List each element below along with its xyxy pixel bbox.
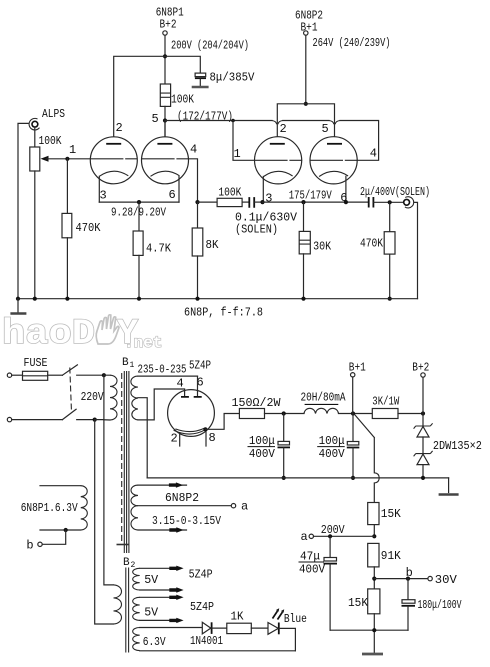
tag arrow 5V1 bottom (169, 587, 183, 592)
junction dot B+2 node (421, 411, 425, 415)
svg-text:5: 5 (322, 122, 329, 136)
wire PSU ground rail (147, 477, 448, 479)
wire to cap 8u branch (165, 56, 200, 73)
tag arrow 3.15V bottom (169, 527, 183, 532)
triode V2 (6N8P1 b) (142, 121, 198, 203)
svg-text:5Z4P: 5Z4P (190, 600, 214, 614)
svg-text:2: 2 (171, 432, 178, 446)
transformer B1 HV secondary 235-0-235 (131, 376, 198, 478)
zener diode 2DW135 lower (414, 439, 482, 478)
svg-text:100K: 100K (39, 134, 63, 148)
svg-text:8μ/385V: 8μ/385V (210, 71, 256, 85)
resistor 470K output (360, 202, 395, 301)
switch link dashed (70, 368, 72, 413)
svg-text:3: 3 (265, 191, 272, 205)
wire B2 feed left (104, 375, 114, 585)
node B+2 terminal (6N8P1 supply) (156, 6, 184, 36)
svg-text:200V: 200V (321, 523, 346, 537)
connector AC input top (7, 373, 22, 377)
ground symbol top section (10, 299, 26, 314)
ground symbol divider (362, 653, 383, 656)
svg-text:3K/1W: 3K/1W (372, 395, 400, 409)
node B+1 terminal (6N8P2 supply) (295, 9, 323, 36)
svg-text:B+1: B+1 (301, 21, 318, 35)
svg-text:haoD: haoD (2, 314, 95, 354)
svg-text:5V: 5V (144, 573, 159, 587)
triode V1 (6N8P1 a) (90, 121, 137, 203)
SECTION BOTTOM : power supply (7, 356, 482, 654)
switch power DPST pole 1 (62, 365, 104, 375)
junction dot grid V1 node (65, 157, 69, 161)
inductor choke 20H/80mA (301, 391, 373, 414)
svg-text:Blue: Blue (284, 612, 307, 626)
connector AC input bottom (7, 417, 62, 421)
svg-text:(SOLEN): (SOLEN) (235, 223, 278, 237)
svg-text:470K: 470K (360, 237, 384, 251)
capacitor 180u/100V (402, 579, 463, 631)
svg-text:1N4001: 1N4001 (190, 634, 223, 648)
svg-text:1K: 1K (231, 610, 245, 624)
svg-text:4: 4 (370, 147, 377, 161)
tag arrow 3.15V top (169, 482, 183, 487)
svg-text:3: 3 (100, 189, 107, 203)
resistor 30K (299, 202, 332, 299)
wire B+1 to divider (hop over ground) (355, 415, 379, 503)
svg-text:FUSE: FUSE (24, 356, 48, 370)
svg-text:200V (204/204V): 200V (204/204V) (171, 39, 249, 53)
svg-text:2μ/400V(SOLEN): 2μ/400V(SOLEN) (360, 185, 430, 199)
svg-text:2DW135×2: 2DW135×2 (433, 439, 482, 453)
wire 175/179V node (263, 201, 369, 203)
fuse FUSE (23, 356, 63, 380)
svg-text:4: 4 (190, 143, 197, 157)
SECTION TOP : preamp (2, 6, 430, 355)
svg-text:235-0-235: 235-0-235 (138, 363, 187, 377)
svg-text:B: B (122, 357, 129, 369)
resistor 15K upper (368, 503, 402, 537)
winding 5V rectifier 2 (133, 597, 214, 620)
svg-text:175/179V: 175/179V (289, 189, 333, 203)
transformer B2 core (126, 568, 129, 653)
triode V4 (6N8P2 b) (310, 137, 357, 205)
connector a terminal right (301, 530, 375, 544)
svg-text:.net: .net (124, 334, 162, 352)
svg-text:5V: 5V (144, 606, 159, 620)
resistor 100K series grid (198, 186, 249, 207)
svg-text:15K: 15K (348, 596, 369, 610)
svg-text:150Ω/2W: 150Ω/2W (232, 396, 282, 410)
potentiometer 100K (30, 134, 91, 299)
tag arrow 5V2 bottom (169, 618, 183, 623)
resistor 150R/2W (232, 396, 305, 419)
svg-text:400V: 400V (299, 563, 326, 577)
wire cathode bus V1 V2 (99, 201, 179, 203)
svg-text:6N8P1.6.3V: 6N8P1.6.3V (21, 501, 79, 515)
svg-text:47μ: 47μ (300, 550, 320, 564)
wire ground bus top section (18, 298, 418, 300)
junction dot primary bottom (93, 418, 97, 422)
wire B+2 vertical to plate node (164, 35, 166, 84)
svg-text:180μ/100V: 180μ/100V (418, 598, 463, 612)
capacitor 8u/385V (192, 71, 256, 88)
svg-text:5Z4P: 5Z4P (189, 568, 213, 582)
svg-text:15K: 15K (381, 507, 402, 521)
svg-text:ALPS: ALPS (42, 107, 65, 121)
svg-text:(172/177V): (172/177V) (177, 110, 233, 124)
wire to tube V1 plate (114, 56, 165, 136)
junction dot primary top (102, 373, 106, 377)
wire hop over plate drop V4 (329, 121, 340, 125)
node b 30V (372, 566, 457, 587)
svg-text:6N8P, f-f:7.8: 6N8P, f-f:7.8 (184, 306, 263, 320)
transformer B1 primary 220V winding (95, 375, 117, 420)
wire divider ground rail (330, 629, 408, 631)
junction dot V3 cathode (260, 200, 264, 204)
resistor 1K LED (227, 610, 268, 634)
wire plate bus V3 V4 (277, 104, 334, 144)
svg-text:4: 4 (177, 377, 184, 391)
ground symbol PSU right (439, 478, 459, 495)
svg-text:8: 8 (209, 431, 216, 445)
junction dot follower node (195, 200, 199, 204)
watermark haoDIY.net (2, 314, 162, 354)
junction dot output node (388, 200, 392, 204)
svg-text:1: 1 (234, 147, 241, 161)
svg-text:8K: 8K (206, 238, 220, 252)
capacitor 100u/400V first (248, 414, 291, 481)
transformer B2 primary (114, 585, 122, 624)
wire 100K to plate pin5 node (164, 106, 166, 136)
LED Blue (268, 608, 307, 651)
svg-text:3.15-0-3.15V: 3.15-0-3.15V (152, 514, 222, 528)
resistor 100K plate V2 (160, 84, 194, 107)
svg-text:400V: 400V (249, 447, 276, 461)
svg-text:91K: 91K (381, 549, 402, 563)
switch power DPST pole 2 (62, 409, 94, 419)
capacitor 47u/400V (299, 536, 338, 630)
svg-text:a: a (241, 500, 248, 514)
svg-text:100K: 100K (218, 186, 242, 200)
junction dot pin5 node (163, 118, 167, 122)
wire hop over plate drop V3 (272, 121, 283, 125)
svg-text:220V: 220V (81, 390, 105, 404)
svg-text:B+2: B+2 (160, 18, 177, 32)
junction dot at 200V node (163, 54, 167, 58)
resistor 91K (368, 543, 402, 589)
zener diode 2DW135 upper (414, 414, 433, 454)
winding 5V rectifier 1 (133, 568, 213, 591)
node 200V divider (321, 523, 377, 538)
svg-text:1: 1 (130, 361, 135, 370)
winding 6.3V LED (133, 628, 296, 651)
node B+2 terminal (412, 361, 429, 414)
transformer B1 core (117, 371, 130, 553)
input connector ALPS jack (18, 107, 65, 299)
svg-text:30V: 30V (435, 573, 458, 587)
tag arrow 5V2 top (169, 595, 183, 600)
svg-text:2: 2 (116, 121, 123, 135)
wire 172V node to grid V3 (165, 120, 272, 122)
svg-text:b: b (26, 539, 33, 553)
resistor 15K lower (348, 589, 380, 653)
junction dot filter node 1 (282, 411, 286, 415)
triode V3 (6N8P2 a) (255, 137, 302, 206)
rectifier tube 5Z4P (168, 376, 216, 447)
wire B+1 vertical (305, 35, 307, 104)
svg-text:400V: 400V (319, 447, 346, 461)
svg-text:30K: 30K (313, 240, 332, 254)
svg-text:470K: 470K (76, 221, 102, 235)
capacitor 100u/400V second (317, 414, 359, 481)
svg-text:264V (240/239V): 264V (240/239V) (313, 36, 391, 50)
wire grid V3 entry (233, 121, 255, 161)
svg-text:2: 2 (280, 122, 287, 136)
resistor 8K (192, 202, 219, 299)
svg-text:100K: 100K (171, 93, 195, 107)
tag arrow 5V1 top (169, 566, 183, 571)
svg-text:a: a (301, 530, 308, 544)
winding 6N8P1 6.3V heater (21, 486, 88, 553)
svg-text:6: 6 (169, 188, 176, 202)
winding B1 heater 3.15-0-3.15V (131, 485, 248, 530)
capacitor 2u/400V SOLEN (360, 185, 430, 208)
svg-text:2: 2 (131, 561, 136, 570)
svg-text:4.7K: 4.7K (146, 242, 172, 256)
svg-text:1: 1 (69, 143, 76, 157)
svg-text:6.3V: 6.3V (143, 635, 167, 649)
wire B2 feed right (95, 420, 114, 624)
junction dot B+1 node (351, 411, 355, 415)
capacitor 0.1u/630V SOLEN (235, 197, 298, 236)
svg-text:20H/80mA: 20H/80mA (301, 391, 347, 405)
svg-text:5: 5 (152, 112, 159, 126)
node B+1 terminal (349, 361, 366, 414)
wire rectifier output to filter (205, 414, 239, 430)
output connector jack (404, 197, 418, 299)
svg-text:5Z4P: 5Z4P (189, 359, 211, 373)
resistor 470K grid leak (62, 159, 101, 299)
svg-text:6N8P2: 6N8P2 (165, 491, 199, 505)
svg-text:B+2: B+2 (412, 361, 429, 375)
diode 1N4001 (190, 622, 227, 648)
svg-text:B: B (123, 557, 130, 569)
resistor 4.7K cathode (133, 202, 172, 299)
resistor 3K/1W (372, 395, 423, 419)
